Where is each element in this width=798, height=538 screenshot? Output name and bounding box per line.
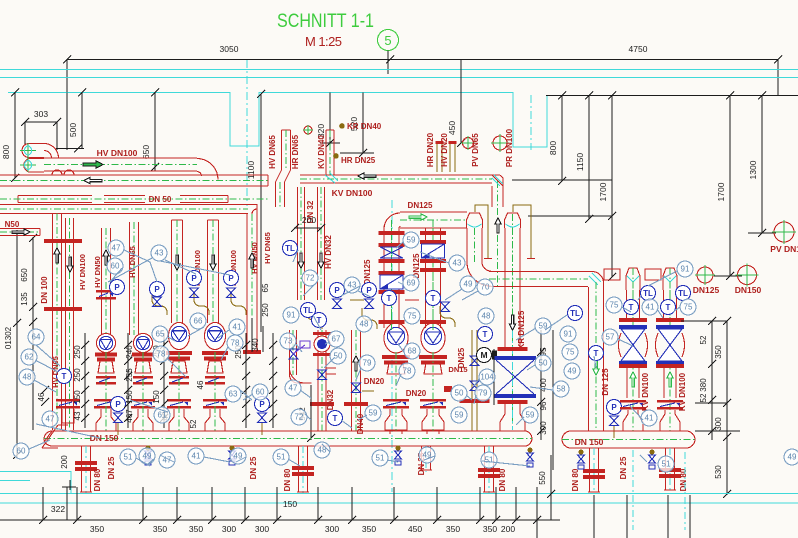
drain valve (395, 446, 402, 466)
leader (110, 268, 122, 282)
svg-text:DN 150: DN 150 (575, 437, 604, 447)
leader (324, 358, 334, 368)
position bubble 79 (359, 355, 375, 371)
pr elbow accent (589, 273, 601, 285)
riser HV DN20 (449, 141, 457, 172)
position bubble 69 (403, 275, 419, 291)
KV column 2 bell (660, 410, 680, 431)
svg-text:200: 200 (501, 524, 515, 534)
svg-text:DN32: DN32 (326, 389, 335, 410)
leader (130, 400, 168, 412)
leader (398, 344, 404, 352)
cl dn125b (432, 220, 434, 330)
kv elbow chamfer (492, 175, 503, 207)
axis below kv1 (632, 450, 634, 530)
flow arrow left (84, 177, 102, 183)
svg-text:T: T (666, 303, 671, 312)
svg-text:3050: 3050 (220, 44, 239, 54)
flange2 pump U3 (168, 357, 190, 361)
stub (320, 142, 340, 144)
svg-text:P: P (154, 285, 160, 294)
leader (356, 368, 361, 380)
drop DN80 d axis (593, 448, 595, 494)
tick (269, 414, 277, 422)
ceiling soffit outline (8, 93, 547, 148)
dim ext 520 (362, 93, 364, 154)
dim ext 450 (460, 60, 462, 143)
drain stub p4 (117, 423, 119, 435)
svg-text:KV DN100: KV DN100 (332, 188, 373, 198)
svg-text:43: 43 (155, 249, 164, 258)
leader (474, 379, 479, 386)
position bubble 41 (188, 448, 204, 464)
svg-text:66: 66 (194, 317, 203, 326)
header end reducer (42, 425, 68, 448)
position bubble 91 (283, 307, 299, 323)
check x179 (167, 399, 191, 409)
drop DN80 a axis (85, 446, 87, 494)
tick (537, 348, 545, 356)
ref line y180 (512, 179, 612, 181)
position bubble 41 (642, 299, 658, 315)
butterfly a (380, 247, 403, 258)
svg-text:200: 200 (60, 455, 69, 469)
position bubble 62 (21, 349, 37, 365)
svg-text:T: T (62, 372, 67, 381)
leader (387, 460, 398, 462)
KV column 2 check valve (657, 400, 683, 410)
tick (273, 516, 281, 524)
svg-text:HV DN65: HV DN65 (263, 232, 272, 264)
tick (13, 319, 21, 327)
svg-text:550: 550 (538, 471, 547, 485)
svg-text:41: 41 (192, 452, 201, 461)
pr elbow (588, 272, 604, 289)
check x396 (383, 399, 409, 409)
ext (56, 122, 58, 150)
position bubble 51 (273, 449, 289, 465)
flange big valve top (498, 347, 528, 351)
leader (673, 307, 680, 312)
KV column 1 lower pipe (627, 368, 639, 398)
leader (305, 414, 311, 420)
valve mid b (365, 299, 374, 309)
flap valve a (380, 275, 403, 289)
svg-text:60: 60 (256, 388, 265, 397)
svg-text:5: 5 (384, 33, 391, 48)
chain ext x277 (276, 487, 278, 520)
leader (466, 395, 472, 400)
svg-text:P: P (115, 400, 121, 409)
svg-text:DN 100: DN 100 (40, 276, 49, 304)
drop DN80 e flange b (659, 474, 681, 478)
tick (314, 516, 322, 524)
svg-text:DN 25: DN 25 (619, 456, 628, 479)
svg-text:P: P (611, 403, 617, 412)
position bubble 60 (13, 443, 29, 459)
position bubble 59 (535, 318, 551, 334)
flow arrow right (83, 161, 103, 168)
position bubble 57 (602, 329, 618, 345)
flange2 pump U5 (384, 361, 408, 365)
position bubble 49 (564, 363, 580, 379)
kv drop centerline (497, 181, 499, 288)
dim line outer (552, 330, 554, 470)
svg-text:N50: N50 (5, 220, 20, 229)
instrument T (478, 327, 493, 342)
flange below pump U4 (202, 351, 228, 355)
dim 200 line (294, 227, 322, 229)
svg-text:DN150: DN150 (735, 285, 762, 295)
svg-text:79: 79 (479, 389, 488, 398)
svg-text:135: 135 (20, 292, 29, 306)
kv top stub2 (645, 269, 661, 280)
svg-text:69: 69 (407, 279, 416, 288)
svg-text:PR DN100: PR DN100 (505, 128, 514, 167)
stub A crosshair (20, 143, 36, 158)
position bubble 43 (344, 277, 360, 293)
instrument P (330, 283, 345, 298)
tick (124, 400, 132, 408)
tick (257, 90, 265, 98)
dim ext 400 (493, 349, 495, 405)
KV column 2 regulating valve (656, 325, 685, 365)
pump U2 (134, 334, 153, 353)
tick (307, 434, 315, 442)
riser DN32 a (298, 187, 305, 300)
svg-text:300: 300 (714, 417, 723, 431)
svg-text:P: P (114, 283, 120, 292)
valve mid a (333, 299, 342, 309)
drop DN80 c cap (483, 491, 495, 493)
position bubble 41 (229, 319, 245, 335)
flange pair top (44, 239, 82, 243)
pipe DN50 segs b (104, 196, 145, 203)
tower2 centerline (512, 214, 514, 430)
leader (482, 461, 530, 466)
svg-text:47: 47 (289, 384, 298, 393)
ext (24, 122, 26, 144)
riser HV DN100 pump3 (172, 220, 183, 323)
check column A (56, 399, 80, 409)
pipe PR horizontal (489, 272, 588, 287)
svg-text:HV DN100: HV DN100 (78, 254, 87, 290)
tick (151, 163, 159, 171)
svg-text:1150: 1150 (575, 153, 585, 172)
elbow down (197, 159, 218, 180)
stub cap mid (350, 299, 364, 301)
dim ext 1700 (611, 96, 613, 278)
dim line 01302 (16, 230, 18, 458)
svg-text:47: 47 (112, 244, 121, 253)
svg-text:75: 75 (566, 348, 575, 357)
lower ext x690 (689, 495, 691, 538)
column DN125 a (384, 228, 399, 328)
tick (390, 516, 398, 524)
tick (41, 398, 49, 406)
leader (34, 380, 56, 392)
position bubble 48 (356, 316, 372, 332)
leader (530, 387, 553, 390)
KV column 2 flange mid (656, 364, 684, 368)
leader (108, 258, 152, 282)
dim ext 500 (81, 93, 83, 150)
check x433 (420, 399, 446, 409)
tick (723, 317, 731, 325)
stub B crosshair (20, 158, 36, 172)
tick (492, 516, 500, 524)
drop DN80 b flange b (292, 472, 314, 476)
svg-text:51: 51 (124, 453, 133, 462)
position bubble 49 (784, 449, 798, 465)
svg-text:41: 41 (233, 323, 242, 332)
position bubble 58 (553, 381, 569, 397)
drop DN80 a (82, 446, 91, 492)
tick (269, 372, 277, 380)
floor line 2 (0, 502, 798, 504)
leader (648, 271, 677, 286)
svg-text:TL: TL (643, 289, 653, 298)
svg-text:350: 350 (446, 524, 460, 534)
dim 340 line b (262, 326, 264, 352)
KV column 2 dome (663, 268, 677, 290)
reducer stack x179 (171, 361, 187, 373)
chain ext x394 (393, 487, 395, 520)
svg-text:150: 150 (152, 390, 161, 404)
leader (218, 330, 229, 338)
tick (476, 516, 484, 524)
cl dn125a (391, 220, 393, 330)
svg-text:303: 303 (34, 109, 48, 119)
position bubble 65 (152, 326, 168, 342)
chain ext x212 (211, 487, 213, 520)
tick (160, 341, 168, 349)
dim stub (714, 275, 742, 277)
svg-text:67: 67 (332, 335, 341, 344)
svg-text:DN 25: DN 25 (107, 456, 116, 479)
reducer stack x143 (135, 361, 151, 373)
svg-text:49: 49 (143, 452, 152, 461)
seg centerline (0, 198, 268, 200)
tick (326, 139, 334, 147)
svg-text:41: 41 (645, 414, 654, 423)
position bubble 43 (449, 255, 465, 271)
tick (774, 56, 782, 64)
leader (204, 457, 230, 462)
drop small cap (420, 469, 432, 471)
position bubble 47 (42, 411, 58, 427)
riser jog (276, 170, 291, 182)
svg-text:59: 59 (369, 409, 378, 418)
flow arrow up KV drop (495, 218, 501, 233)
position bubble 75 (562, 344, 578, 360)
chain ext x437 (436, 487, 438, 520)
flange below pump U1 (95, 353, 117, 357)
svg-text:HV DN65: HV DN65 (128, 246, 137, 278)
check x143 (131, 399, 155, 409)
dim ladder x85 (84, 333, 86, 428)
KV column 1 bell (623, 410, 643, 431)
riser DN32 b (318, 187, 325, 300)
svg-text:59: 59 (407, 236, 416, 245)
leader (462, 291, 478, 300)
elbow DN125 (384, 213, 401, 229)
dim line 400r (540, 330, 542, 440)
svg-text:M 1:25: M 1:25 (305, 34, 342, 49)
jog elbow (290, 368, 312, 383)
position bubble 47 (159, 452, 175, 468)
dim ext 1150 (588, 96, 590, 220)
valve at P right (610, 416, 619, 426)
tick (269, 357, 277, 365)
leader (35, 360, 58, 372)
leader (396, 374, 401, 386)
dim line mid (528, 215, 612, 217)
position bubble 51 (481, 452, 497, 468)
pipe return run (0, 175, 268, 186)
svg-text:SCHNITT 1-1: SCHNITT 1-1 (277, 11, 374, 32)
KV column 1 check valve (620, 400, 646, 410)
column axis (391, 200, 393, 492)
svg-text:450: 450 (447, 121, 457, 135)
reducer stack x215 (207, 361, 223, 373)
column DN125 b (426, 228, 441, 328)
lever valve (289, 341, 310, 359)
svg-text:TL: TL (303, 306, 313, 315)
chain ext x516 (515, 487, 517, 520)
dim top line (681, 320, 727, 322)
tick (242, 414, 250, 422)
tick (708, 317, 716, 325)
valve dn40 (352, 383, 361, 393)
flange a4 (379, 271, 405, 275)
svg-text:150: 150 (283, 499, 297, 509)
pipe stub cap B (24, 159, 44, 173)
position bubble 70 (477, 279, 493, 295)
arrow up dn100 (54, 248, 60, 263)
svg-text:HR DN25: HR DN25 (341, 156, 376, 165)
flange b5 (420, 320, 446, 324)
lower ext 537 (536, 487, 538, 538)
tower2 axis (512, 330, 514, 430)
leader (296, 344, 302, 352)
overflow pipe 1 (475, 205, 488, 258)
drain valve (145, 446, 152, 466)
tick (608, 92, 616, 100)
dim ext 800 (561, 96, 563, 182)
leader (618, 339, 633, 346)
drop DN80 d flange a (583, 469, 605, 473)
position bubble 75 (404, 308, 420, 324)
tick (78, 89, 86, 97)
position bubble 51 (372, 450, 388, 466)
dim ext 1700b (729, 96, 731, 277)
svg-text:1300: 1300 (748, 160, 758, 179)
position bubble 75 (606, 297, 622, 313)
leader (29, 440, 50, 449)
dim ladder x128 (127, 333, 129, 428)
tick (242, 372, 250, 380)
position bubble 60 (252, 384, 268, 400)
svg-text:650: 650 (20, 268, 29, 282)
position bubble 49 (419, 447, 435, 463)
drop DN80 c (485, 446, 494, 492)
svg-text:DN125: DN125 (693, 285, 720, 295)
chain ext x245 (244, 487, 246, 520)
svg-text:104: 104 (480, 373, 494, 382)
pipe stub cap A (22, 144, 44, 158)
svg-text:51: 51 (662, 460, 671, 469)
arrow mid (249, 253, 255, 268)
svg-text:350: 350 (362, 524, 376, 534)
instrument P (255, 397, 270, 412)
instrument T (589, 346, 604, 361)
leader (168, 337, 175, 341)
tower1 pipe (467, 228, 482, 262)
svg-text:350: 350 (90, 524, 104, 534)
instrument T (382, 291, 397, 306)
svg-text:DN 125: DN 125 (601, 368, 610, 396)
bell x179 (169, 409, 189, 431)
leader (160, 261, 230, 275)
tick (41, 386, 49, 394)
svg-text:350: 350 (483, 524, 497, 534)
leader (240, 390, 252, 400)
vent PR DN100 (491, 134, 509, 152)
drop DN80 d (590, 448, 599, 492)
svg-text:380: 380 (699, 378, 708, 392)
drop DN80 c axis (488, 446, 490, 494)
svg-text:49: 49 (464, 280, 473, 289)
tick (386, 56, 394, 64)
svg-text:KV DN40: KV DN40 (317, 135, 326, 169)
tick (241, 516, 249, 524)
mid flange x143 (133, 376, 153, 384)
svg-text:DN125: DN125 (363, 259, 372, 284)
svg-text:DN 80: DN 80 (283, 468, 292, 491)
dim ext 320 (329, 93, 331, 144)
svg-text:59: 59 (526, 411, 535, 420)
ceiling line 1 (0, 69, 798, 71)
extension right (777, 60, 779, 97)
tower1 elbow (467, 262, 491, 286)
tick (124, 386, 132, 394)
tick (291, 224, 299, 232)
tick (73, 516, 81, 524)
leader (313, 315, 321, 330)
svg-text:75: 75 (684, 303, 693, 312)
tick (124, 341, 132, 349)
flange a3 (379, 259, 405, 263)
small valve col b (441, 302, 450, 312)
svg-text:HV DN50: HV DN50 (93, 256, 102, 288)
leader (167, 358, 186, 377)
pipe DN50 stub (0, 229, 40, 236)
svg-text:01302: 01302 (4, 326, 13, 349)
chain ext x480 (479, 487, 481, 520)
tick (269, 386, 277, 394)
tick (124, 357, 132, 365)
position bubble 48 (478, 308, 494, 324)
centerline col x143 (142, 352, 144, 431)
tick (708, 427, 716, 435)
tick (547, 490, 555, 498)
tick (13, 451, 21, 459)
svg-text:52: 52 (699, 393, 708, 402)
pump U4 (205, 323, 226, 350)
mid flange x215 (205, 376, 225, 384)
svg-text:64: 64 (32, 333, 41, 342)
